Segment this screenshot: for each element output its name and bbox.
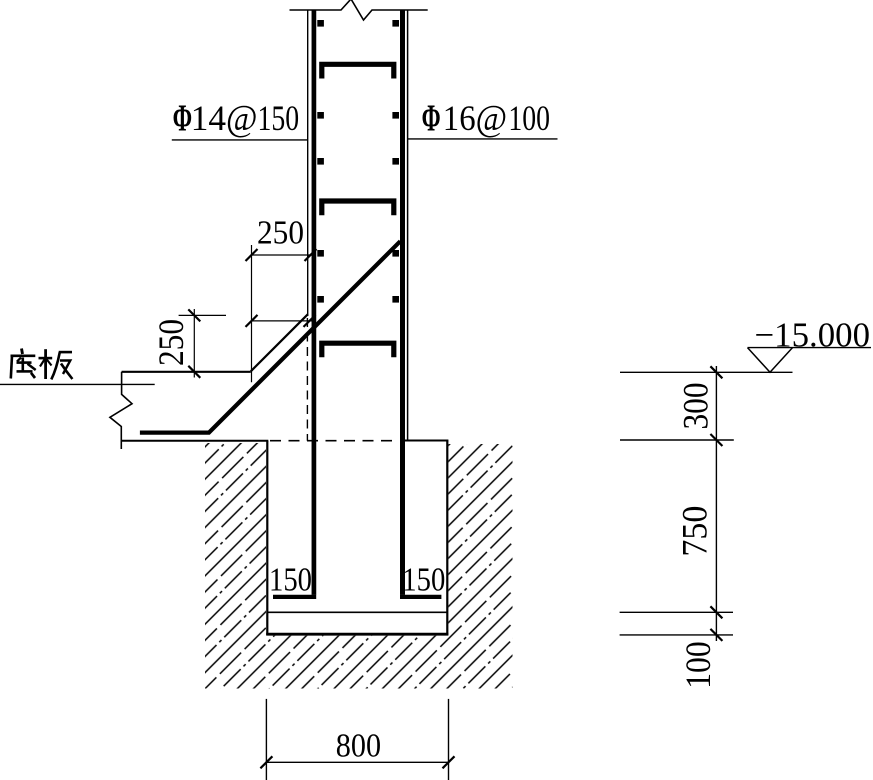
- soil hatch region: [205, 443, 513, 689]
- horizontal bar dots row 5: [317, 296, 399, 303]
- level line -15.000: [620, 371, 793, 373]
- tick: [443, 756, 455, 768]
- tick: [305, 249, 317, 261]
- wall top break line: [290, 0, 428, 20]
- tick: [710, 366, 722, 378]
- stirrup tie 2: [322, 201, 394, 215]
- right rebar foot 150: [400, 595, 441, 599]
- horizontal bar dots row 4: [317, 250, 399, 257]
- right vertical rebar Φ16: [400, 10, 405, 595]
- slab bottom line: [122, 440, 269, 442]
- tick: [710, 629, 722, 641]
- svg-text:@: @: [476, 99, 508, 140]
- bottom ext line left: [265, 699, 267, 780]
- dimension 250 second line: [252, 320, 312, 322]
- 底板 label text (drawn strokes): [11, 349, 73, 380]
- lean concrete top line: [267, 611, 447, 613]
- svg-text:150: 150: [402, 562, 445, 599]
- slab top line: [122, 371, 251, 373]
- svg-text:250: 250: [151, 319, 191, 366]
- haunch outline diagonal: [251, 314, 308, 371]
- tick: [188, 309, 200, 321]
- svg-text:300: 300: [676, 383, 716, 430]
- tick: [710, 606, 722, 618]
- stirrup tie 1: [322, 64, 394, 78]
- svg-text:150: 150: [258, 98, 300, 138]
- svg-text:250: 250: [257, 214, 304, 251]
- tick: [246, 249, 258, 261]
- footing top right ledge: [404, 440, 448, 442]
- svg-text:14: 14: [191, 98, 226, 138]
- wall left face line (hidden, dashed): [306, 318, 308, 441]
- svg-text:100: 100: [508, 98, 550, 138]
- left vertical rebar Φ14: [312, 10, 317, 595]
- slab break line: [110, 372, 132, 449]
- bent-up rebar: [140, 241, 400, 432]
- pit bottom line: [266, 633, 448, 636]
- svg-text:16: 16: [443, 98, 476, 138]
- leader line right: [408, 138, 558, 140]
- svg-text:800: 800: [336, 728, 381, 765]
- vertical dimension 250 line: [193, 309, 195, 378]
- dimension ext line vertical (haunch): [251, 245, 253, 382]
- stirrup tie 3: [322, 343, 394, 357]
- tick: [304, 315, 316, 327]
- hidden line at footing top: [270, 440, 399, 442]
- level line footing top: [620, 439, 734, 441]
- tick: [710, 434, 722, 446]
- ext line: [179, 314, 226, 316]
- svg-text:−15.000: −15.000: [755, 316, 871, 355]
- bottom dimension line 800: [266, 761, 448, 763]
- left rebar foot 150: [273, 595, 316, 599]
- horizontal bar dots row 1: [317, 20, 399, 27]
- svg-text:Φ: Φ: [422, 97, 441, 139]
- tick: [246, 315, 258, 327]
- svg-text:100: 100: [678, 641, 718, 689]
- tick: [188, 366, 200, 378]
- svg-text:Φ: Φ: [173, 97, 193, 139]
- tick: [260, 756, 272, 768]
- wall right face line: [407, 10, 409, 440]
- wall left face line (solid): [307, 10, 309, 316]
- dimension 250 top line: [251, 254, 315, 256]
- right dimension chain line: [715, 366, 717, 641]
- svg-text:750: 750: [675, 506, 715, 557]
- horizontal bar dots row 2: [317, 112, 399, 119]
- footing pit right edge: [446, 441, 448, 635]
- footing pit left edge: [266, 441, 268, 635]
- 底板 label leader line: [0, 383, 155, 385]
- horizontal bar dots row 3: [317, 158, 399, 165]
- svg-text:@: @: [226, 99, 258, 140]
- bottom ext line right: [448, 699, 450, 780]
- svg-text:150: 150: [269, 562, 312, 599]
- elevation symbol line: [748, 347, 872, 349]
- level line pit bottom: [620, 634, 733, 636]
- level line lean top: [620, 611, 733, 613]
- leader line left: [172, 139, 308, 141]
- elevation symbol triangle: [748, 348, 793, 373]
